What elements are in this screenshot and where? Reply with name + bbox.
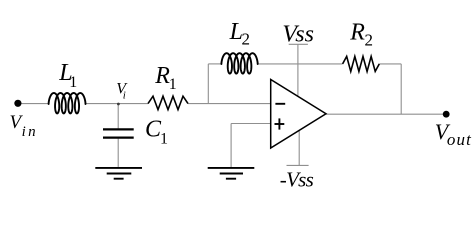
svg-text:1: 1 [169,76,177,93]
svg-text:1: 1 [160,130,168,147]
svg-text:i: i [123,89,126,101]
svg-text:1: 1 [69,74,77,91]
svg-text:in: in [22,124,36,140]
svg-text:2: 2 [242,30,251,49]
svg-text:-Vss: -Vss [280,168,314,192]
svg-text:ss: ss [295,21,314,47]
svg-text:2: 2 [365,30,374,49]
svg-text:out: out [447,130,472,149]
svg-text:R: R [349,20,365,46]
